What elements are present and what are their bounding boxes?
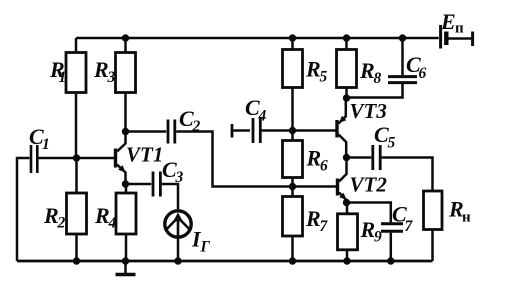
node: R2 / rail — [73, 257, 80, 264]
svg-text:2: 2 — [57, 215, 66, 232]
capacitor C3 — [126, 157, 184, 209]
resistor R1 — [49, 38, 86, 158]
svg-text:R: R — [306, 146, 322, 171]
resistor R3 — [93, 38, 136, 132]
svg-text:3: 3 — [175, 169, 184, 186]
svg-text:4: 4 — [258, 108, 267, 125]
resistor R2 — [43, 158, 87, 261]
svg-text:R: R — [305, 206, 321, 231]
node: rail / C6 — [399, 34, 406, 41]
wire: C2 down to VT2 base — [176, 132, 336, 187]
node: VT3 collector / VT2 collector / C5 — [343, 154, 350, 161]
node: R4 / ground / rail — [122, 257, 129, 264]
node: IГ / bottom rail — [174, 257, 181, 264]
node: VT2 emitter / R9 / C7 — [343, 199, 350, 206]
wire: bottom ground rail — [17, 260, 433, 263]
resistor R4 — [94, 184, 136, 261]
node: R8 / C6 / VT3 emitter — [343, 94, 350, 101]
node: R7 / rail — [289, 257, 296, 264]
battery Eп — [440, 9, 473, 49]
capacitor C1 — [29, 124, 50, 173]
capacitor C2 — [126, 106, 201, 144]
wire top supply rail — [76, 37, 439, 40]
resistor R5 — [283, 38, 328, 131]
svg-text:VT2: VT2 — [350, 173, 388, 197]
transistor VT3 — [337, 98, 387, 158]
capacitor C7 — [347, 202, 414, 262]
svg-text:8: 8 — [374, 70, 382, 87]
svg-text:R: R — [359, 58, 375, 83]
wire: input loop left side — [17, 158, 30, 261]
svg-text:7: 7 — [405, 218, 414, 235]
svg-text:6: 6 — [320, 158, 328, 175]
capacitor C4 — [234, 95, 267, 143]
svg-text:п: п — [455, 21, 464, 37]
node: R3 / VT1 collector / C2 — [122, 128, 129, 135]
svg-text:1: 1 — [42, 136, 50, 153]
svg-text:VT1: VT1 — [126, 143, 163, 167]
svg-text:5: 5 — [388, 135, 396, 152]
node: R1 / R2 / C1 / VT1 base — [73, 154, 80, 161]
resistor R7 — [283, 187, 329, 262]
node: rail / R5 — [289, 34, 296, 41]
current source IГ — [165, 211, 211, 261]
svg-text:E: E — [440, 9, 456, 34]
capacitor C6 — [347, 38, 427, 98]
node: R5 / R6 / C4 / VT3 base — [289, 127, 296, 134]
svg-text:R: R — [305, 57, 321, 82]
ground — [116, 261, 136, 275]
resistor R9 — [338, 203, 383, 262]
svg-text:3: 3 — [107, 69, 116, 86]
svg-text:1: 1 — [59, 69, 67, 86]
svg-text:R: R — [94, 203, 110, 228]
svg-text:R: R — [93, 57, 109, 82]
node: R9 / rail — [343, 257, 350, 264]
svg-text:9: 9 — [374, 229, 382, 246]
svg-text:VT3: VT3 — [350, 99, 387, 123]
transistor VT1 — [116, 132, 164, 185]
transistor VT2 — [338, 158, 388, 203]
svg-text:7: 7 — [320, 218, 329, 235]
wire: C4 to VT3 base — [262, 129, 336, 132]
input terminal — [231, 124, 234, 138]
svg-text:5: 5 — [320, 69, 328, 86]
wire: C1 to VT1 base — [39, 157, 114, 160]
svg-text:Г: Г — [200, 239, 211, 256]
node: C7 / rail — [387, 257, 394, 264]
resistor R6 — [283, 131, 329, 187]
node: R6 / R7 / VT2 base — [289, 183, 296, 190]
node: rail / R3 — [122, 34, 129, 41]
node: VT1 emitter / R4 / C3 — [122, 180, 129, 187]
svg-text:4: 4 — [108, 215, 117, 232]
svg-text:R: R — [360, 217, 376, 242]
resistor Rн (load) — [424, 191, 472, 261]
svg-text:6: 6 — [419, 65, 427, 82]
resistor R8 — [337, 38, 382, 98]
svg-text:R: R — [43, 203, 59, 228]
svg-text:н: н — [462, 210, 471, 226]
capacitor C5 — [347, 122, 433, 191]
node: rail / R8 — [343, 34, 350, 41]
